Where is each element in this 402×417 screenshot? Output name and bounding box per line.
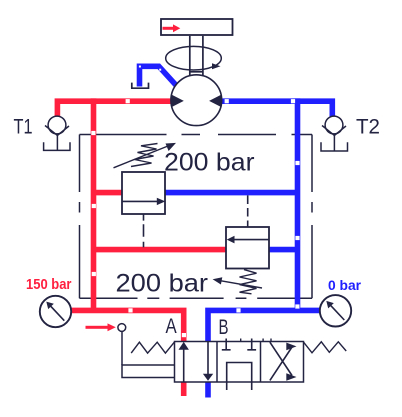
pump/motor circle (171, 75, 222, 126)
pilot knob circle (118, 324, 126, 332)
wire: red branch to top relief valve (94, 190, 123, 196)
pump left triangle (171, 95, 184, 108)
pump right triangle (209, 95, 222, 108)
input arrow red (86, 323, 116, 331)
junction node blue riser upper (295, 161, 299, 165)
relief valve V2 adjust arrow (221, 281, 262, 288)
relief valve V1 flow arrow (122, 200, 157, 202)
position 3 cross arrow down (270, 342, 292, 375)
pin dot drain diagonal joint (159, 69, 161, 71)
check valve T2 (321, 116, 348, 151)
rotation ellipse (166, 46, 222, 70)
relief valve V1 spring (131, 144, 158, 167)
relief valve V2 pilot line (247, 195, 249, 227)
pin dot drain elbow corner (139, 66, 141, 68)
relief valve V1 body (122, 172, 165, 214)
wire: red bottom line from gauge to port A (71, 308, 184, 342)
svg-text:A: A (166, 314, 178, 338)
junction node on red main line (126, 99, 130, 103)
junction node red riser mid (92, 204, 96, 208)
svg-text:B: B (219, 315, 229, 339)
svg-text:T2: T2 (356, 115, 380, 139)
wire: blue main line top to T2 (222, 101, 333, 117)
top edge (80, 134, 313, 136)
junction node red riser lower (92, 272, 96, 276)
junction node blue riser mid (295, 236, 299, 240)
load block at top (161, 19, 233, 35)
wire: red stub below valve (port P) (181, 382, 187, 396)
junction node blue main/riser tee (291, 99, 295, 103)
position 2 blocked port left (222, 339, 231, 350)
position 1 up arrow (P to A) (183, 349, 185, 382)
gauge G2 needle (330, 304, 345, 320)
rotation arrowhead (212, 63, 221, 69)
position 2 blocked port right (247, 339, 256, 350)
svg-text:150 bar: 150 bar (26, 277, 72, 293)
port ticks on valve top edge (241, 339, 271, 342)
pilot actuator box (122, 365, 175, 378)
wire: blue return from bottom relief valve (269, 247, 298, 253)
relief valve V1 adjust arrow (114, 146, 169, 168)
divider 1 (216, 342, 218, 383)
wire: blue return from top relief valve (165, 190, 298, 196)
junction node red bottom line (128, 308, 132, 312)
enclosure dashed box (80, 135, 313, 299)
divider 2 (260, 342, 262, 383)
position 1 down arrow (B to T) (207, 342, 209, 375)
wire: blue bottom line port B to gauge (205, 310, 320, 341)
junction node on blue main line near pump (225, 99, 229, 103)
junction node blue riser lower (295, 304, 299, 308)
pilot connector line (121, 332, 123, 366)
right edge (311, 135, 313, 299)
svg-text:200 bar: 200 bar (116, 270, 209, 298)
wire: blue stub below valve (port T) (205, 382, 211, 398)
wire: blue riser right (295, 98, 301, 310)
gauge G1 needle (50, 305, 65, 321)
position 3 cross arrow up (270, 347, 292, 380)
gauge G1 (40, 296, 71, 327)
relief valve V1 pilot line (143, 214, 145, 247)
gauge G2 (320, 295, 351, 326)
bottom edge (80, 297, 313, 299)
motor shaft (190, 36, 203, 75)
junction node blue bottom line (236, 308, 240, 312)
red arrow in load block (163, 24, 181, 32)
wire: red branch to bottom relief valve (94, 247, 227, 253)
svg-text:T1: T1 (14, 115, 33, 139)
wire: red main supply line top (57, 101, 171, 117)
relief valve V2 body (226, 227, 269, 269)
check valve T1 (44, 116, 70, 150)
spring right of valve (304, 342, 347, 353)
junction node port A riser (182, 333, 186, 337)
left edge (79, 135, 81, 299)
tank under blue drain (132, 83, 149, 89)
junction node red riser at enclosure top (91, 131, 95, 135)
svg-text:0 bar: 0 bar (328, 278, 362, 293)
wire: blue drain elbow from pump to tank (140, 66, 177, 86)
position 2 bottom stubs (227, 382, 252, 390)
spring left of valve (131, 342, 174, 353)
relief valve V2 spring (240, 270, 257, 294)
svg-text:200 bar: 200 bar (164, 149, 255, 177)
directional valve body (175, 342, 304, 383)
position 2 bypass (227, 363, 252, 383)
wire: red riser left (91, 98, 97, 310)
relief valve V2 flow arrow (234, 239, 269, 241)
